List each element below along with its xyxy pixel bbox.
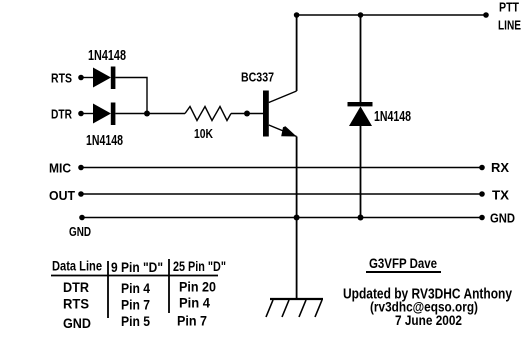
svg-text:Pin 5: Pin 5 — [121, 313, 150, 329]
node RX terminal dot — [479, 165, 485, 171]
transistor Q1 BC337 — [263, 91, 297, 137]
junction dot diode D3 / top rail — [358, 12, 364, 18]
node OUT terminal dot — [78, 191, 84, 197]
svg-text:Data Line: Data Line — [52, 258, 102, 274]
credits text — [343, 287, 512, 329]
svg-text:LINE: LINE — [498, 19, 521, 33]
svg-text:Pin 4: Pin 4 — [179, 295, 210, 311]
node PTT terminal dot — [483, 12, 489, 18]
node GND left terminal dot — [79, 215, 85, 221]
svg-text:Pin 20: Pin 20 — [179, 279, 216, 295]
svg-text:Pin 4: Pin 4 — [121, 280, 150, 296]
label PTT LINE — [498, 1, 521, 33]
svg-text:7 June 2002: 7 June 2002 — [395, 312, 462, 328]
svg-text:25 Pin "D": 25 Pin "D" — [173, 258, 226, 274]
junction dot D3 anode / GND rail — [358, 215, 364, 221]
table pin assignments — [51, 258, 226, 332]
svg-text:RTS: RTS — [51, 72, 72, 86]
svg-text:OUT: OUT — [49, 189, 75, 203]
diode D1 1N4148 (RTS) — [93, 67, 115, 90]
wire GND rail — [82, 217, 482, 219]
title G3VFP Dave — [366, 255, 441, 272]
node MIC terminal dot — [78, 165, 84, 171]
wire OUT to TX — [81, 193, 482, 195]
svg-text:10K: 10K — [194, 126, 213, 141]
wire Q1 collector up — [296, 15, 298, 91]
node TX terminal dot — [479, 191, 485, 197]
node RTS terminal dot — [78, 75, 84, 81]
wire D2 cathode to resistor R1 — [115, 113, 185, 115]
junction dot diodes common node — [144, 111, 150, 117]
wire top rail down to D3 cathode — [360, 15, 362, 102]
svg-text:GND: GND — [63, 315, 91, 331]
wire Q1 emitter down to GND rail and earth — [296, 137, 298, 300]
svg-text:GND: GND — [490, 212, 515, 226]
svg-text:Pin 7: Pin 7 — [121, 297, 150, 313]
node DTR terminal dot — [78, 111, 84, 117]
svg-text:Pin 7: Pin 7 — [177, 313, 207, 329]
svg-text:1N4148: 1N4148 — [88, 48, 126, 64]
wire MIC to RX — [81, 167, 482, 169]
wire D3 anode down to GND rail — [360, 126, 362, 218]
svg-text:MIC: MIC — [49, 162, 71, 176]
wire RTS to diode D1 anode — [81, 77, 93, 79]
junction dot base node — [244, 111, 250, 117]
wire top rail to PTT — [297, 14, 486, 16]
svg-text:BC337: BC337 — [241, 70, 274, 85]
diode D2 1N4148 (DTR) — [93, 103, 115, 126]
wire DTR to diode D2 anode — [81, 113, 93, 115]
junction dot emitter / GND rail — [294, 215, 300, 221]
ground earth symbol — [266, 299, 323, 317]
junction dot collector / top rail — [294, 12, 300, 18]
node GND right terminal dot — [479, 215, 485, 221]
svg-text:DTR: DTR — [51, 108, 72, 122]
resistor R1 10K — [185, 107, 231, 121]
diode D3 1N4148 (flyback) — [348, 102, 373, 126]
svg-text:RTS: RTS — [63, 296, 89, 312]
svg-text:1N4148: 1N4148 — [374, 109, 411, 125]
wire D1 cathode to junction — [115, 78, 147, 114]
svg-text:RX: RX — [491, 161, 510, 175]
svg-text:1N4148: 1N4148 — [86, 133, 123, 149]
wire R1 to Q1 base — [231, 113, 263, 115]
svg-text:TX: TX — [492, 189, 510, 203]
svg-text:GND: GND — [69, 224, 91, 239]
svg-text:G3VFP Dave: G3VFP Dave — [369, 255, 437, 271]
svg-text:9 Pin "D": 9 Pin "D" — [111, 259, 163, 275]
svg-text:PTT: PTT — [499, 1, 519, 15]
svg-text:DTR: DTR — [63, 279, 89, 295]
